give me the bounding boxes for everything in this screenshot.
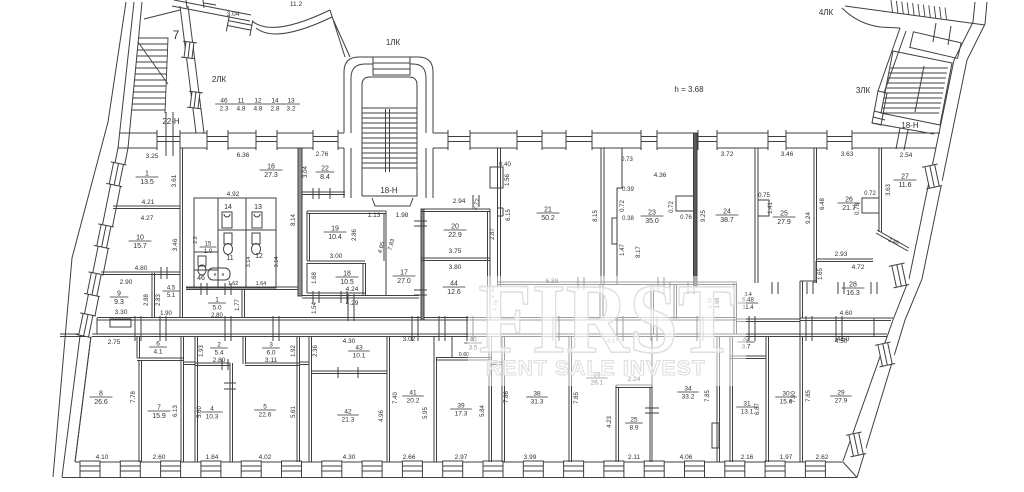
svg-text:1: 1 xyxy=(145,171,149,178)
bottom right corner joint xyxy=(843,462,857,478)
wall x735 lower xyxy=(734,283,800,334)
svg-text:9.24: 9.24 xyxy=(806,212,812,224)
svg-text:3.14: 3.14 xyxy=(274,257,280,268)
svg-text:7.85: 7.85 xyxy=(705,390,711,402)
svg-text:12: 12 xyxy=(255,253,263,260)
stairwell top edge xyxy=(144,10,180,19)
svg-text:1.84: 1.84 xyxy=(206,454,219,461)
room 44 label xyxy=(443,281,466,297)
svg-text:11.6: 11.6 xyxy=(898,182,911,189)
svg-text:2.62: 2.62 xyxy=(816,454,829,461)
svg-text:н: н xyxy=(222,272,225,278)
svg-text:2.8: 2.8 xyxy=(270,106,279,113)
svg-text:21: 21 xyxy=(544,207,552,214)
svg-text:44: 44 xyxy=(450,281,458,288)
svg-text:2.93: 2.93 xyxy=(835,251,848,258)
svg-text:43: 43 xyxy=(355,345,363,352)
room 28 left wall upper xyxy=(815,261,817,283)
svg-text:18: 18 xyxy=(343,271,351,278)
svg-text:27.9: 27.9 xyxy=(835,398,848,405)
svg-text:4.80: 4.80 xyxy=(135,265,148,272)
svg-text:13: 13 xyxy=(287,98,295,105)
gap connector block1-2 xyxy=(183,362,195,365)
room 2 label xyxy=(210,342,228,357)
svg-text:7.85: 7.85 xyxy=(574,392,580,404)
svg-text:20: 20 xyxy=(451,224,459,231)
room 9 walls xyxy=(152,273,155,318)
room 39 label xyxy=(450,403,472,418)
vestibule room numbers row xyxy=(215,98,233,113)
tower top window xyxy=(373,57,410,75)
svg-text:6.13: 6.13 xyxy=(173,405,179,417)
room 25b box xyxy=(616,385,652,462)
svg-text:18-Н: 18-Н xyxy=(380,186,398,195)
svg-text:14: 14 xyxy=(271,98,279,105)
svg-text:22-Н: 22-Н xyxy=(162,117,180,126)
svg-text:4.96: 4.96 xyxy=(379,410,385,422)
svg-text:4.92: 4.92 xyxy=(227,191,240,198)
tower bottom tab xyxy=(372,198,413,206)
room 34 label xyxy=(677,386,699,401)
svg-text:3.99: 3.99 xyxy=(524,454,537,461)
svg-text:4.27: 4.27 xyxy=(141,215,154,222)
svg-text:1.47: 1.47 xyxy=(620,244,626,256)
entry room 1 right wall xyxy=(242,289,245,318)
3LK left wall xyxy=(872,91,887,125)
svg-text:0.73: 0.73 xyxy=(621,157,633,163)
svg-text:3.00: 3.00 xyxy=(330,253,343,260)
svg-text:13: 13 xyxy=(254,204,262,211)
svg-text:2.66: 2.66 xyxy=(403,454,416,461)
svg-text:4.02: 4.02 xyxy=(259,454,272,461)
small room 4.5/5.1 xyxy=(163,286,180,300)
svg-text:2.60: 2.60 xyxy=(153,454,166,461)
room 26 label xyxy=(838,197,861,213)
svg-text:2.97: 2.97 xyxy=(455,454,468,461)
svg-text:27.9: 27.9 xyxy=(777,219,791,226)
svg-text:9.25: 9.25 xyxy=(701,210,707,222)
svg-text:1.77: 1.77 xyxy=(235,299,241,311)
svg-text:22.6: 22.6 xyxy=(259,412,272,419)
svg-text:11: 11 xyxy=(238,98,245,105)
block4 left wall xyxy=(502,336,505,462)
wc 46 toilet xyxy=(198,256,206,266)
3LK upper landing xyxy=(910,32,961,59)
top wall band lower line xyxy=(118,147,936,149)
curved bay outer arc xyxy=(252,10,330,27)
svg-text:0.72: 0.72 xyxy=(864,191,876,197)
room 32 box xyxy=(730,356,766,359)
svg-text:38: 38 xyxy=(533,391,541,398)
rooms 42/41 divider xyxy=(387,336,390,462)
svg-text:2.94: 2.94 xyxy=(453,198,466,205)
room 43 door ticks xyxy=(338,367,358,378)
svg-text:0.72: 0.72 xyxy=(620,200,626,212)
svg-text:21.3: 21.3 xyxy=(342,417,355,424)
svg-text:27: 27 xyxy=(901,174,909,181)
svg-text:3.46: 3.46 xyxy=(781,151,794,158)
svg-text:19: 19 xyxy=(331,226,339,233)
door tick rooms4 xyxy=(222,359,228,370)
wall x880 xyxy=(879,148,882,232)
thick wall x695 xyxy=(694,133,698,287)
svg-text:2.36: 2.36 xyxy=(313,345,319,357)
block2 right wall xyxy=(297,336,300,462)
svg-text:27.3: 27.3 xyxy=(264,172,278,179)
corridor right verticals xyxy=(800,318,874,336)
corridor top mid-left xyxy=(302,296,419,299)
svg-text:3.72: 3.72 xyxy=(721,151,734,158)
tower stair treads xyxy=(362,108,417,172)
svg-text:5.95: 5.95 xyxy=(423,407,429,419)
svg-text:7: 7 xyxy=(157,405,161,412)
svg-text:2.54: 2.54 xyxy=(900,152,913,159)
stairwell 2LK right wall xyxy=(180,6,204,133)
svg-text:1.68: 1.68 xyxy=(312,272,318,284)
svg-text:4.30: 4.30 xyxy=(343,338,356,345)
svg-text:34: 34 xyxy=(684,386,692,393)
svg-text:25: 25 xyxy=(630,417,638,424)
rooms31/30 divider xyxy=(766,336,769,462)
svg-text:5.1: 5.1 xyxy=(167,293,176,299)
svg-text:0.72: 0.72 xyxy=(669,201,675,213)
svg-text:24: 24 xyxy=(723,209,731,216)
svg-text:3.04: 3.04 xyxy=(303,166,309,178)
wc inner walls xyxy=(194,198,276,288)
svg-text:4.36: 4.36 xyxy=(654,172,667,179)
shaft on block4 wall xyxy=(712,423,719,448)
svg-text:23: 23 xyxy=(648,210,656,217)
room 30 label xyxy=(775,391,797,406)
room 18 walls xyxy=(307,263,366,296)
svg-text:12.6: 12.6 xyxy=(447,289,461,296)
room 42 label xyxy=(337,409,359,424)
wc 11 toilet xyxy=(224,233,232,244)
svg-text:1ЛК: 1ЛК xyxy=(386,38,401,47)
room 5 label xyxy=(254,404,276,419)
svg-text:5: 5 xyxy=(263,404,267,411)
svg-text:39: 39 xyxy=(457,403,465,410)
windows on top wall xyxy=(157,130,852,150)
block5 top wall extension xyxy=(843,334,887,337)
svg-text:8.15: 8.15 xyxy=(593,210,599,222)
door tick mid rooms5 xyxy=(224,383,236,389)
svg-text:21.7: 21.7 xyxy=(842,205,856,212)
door ticks along corridor xyxy=(135,294,842,341)
svg-text:4.72: 4.72 xyxy=(852,264,865,271)
svg-text:4.21: 4.21 xyxy=(142,199,155,206)
svg-text:46: 46 xyxy=(220,98,228,105)
svg-text:41: 41 xyxy=(409,390,417,397)
svg-text:1: 1 xyxy=(215,297,219,304)
thick wall x298 xyxy=(298,148,302,296)
left wall notch room21 xyxy=(497,208,503,216)
room 24 label xyxy=(716,209,739,225)
room 36 label xyxy=(586,372,608,387)
svg-text:1.13: 1.13 xyxy=(368,212,381,219)
svg-text:2.11: 2.11 xyxy=(628,454,641,461)
svg-text:4.30: 4.30 xyxy=(343,454,356,461)
svg-text:0.60: 0.60 xyxy=(459,352,470,358)
room 25 label xyxy=(773,211,796,227)
outer wall left band, outer line xyxy=(62,2,134,477)
room 21 label xyxy=(537,207,560,223)
svg-text:3: 3 xyxy=(269,342,273,349)
block1 right wall xyxy=(181,336,184,462)
rooms30/29 divider xyxy=(800,336,803,462)
room 6 label xyxy=(149,341,167,356)
svg-text:4.24: 4.24 xyxy=(346,286,359,293)
block3 right wall xyxy=(489,336,492,462)
room 38 label xyxy=(526,391,548,406)
svg-text:50.2: 50.2 xyxy=(541,215,555,222)
svg-text:0.39: 0.39 xyxy=(622,187,634,193)
door ticks from 3LK landing xyxy=(896,128,908,150)
outer wall right band inner line xyxy=(843,2,975,461)
room 28 left wall lower xyxy=(800,281,816,318)
svg-text:3.75: 3.75 xyxy=(449,248,462,255)
svg-text:31.3: 31.3 xyxy=(531,399,544,406)
wall from 4LK curve down to 3LK xyxy=(878,28,906,93)
door tick on room25 box xyxy=(645,408,659,413)
svg-text:3.63: 3.63 xyxy=(886,184,892,196)
svg-text:3.11: 3.11 xyxy=(265,357,278,364)
door ticks room22 xyxy=(313,188,330,199)
svg-text:46: 46 xyxy=(197,275,205,282)
svg-text:9.3: 9.3 xyxy=(114,299,124,306)
wall 21/23 main xyxy=(601,148,604,285)
corridor top centre xyxy=(497,282,737,285)
room 1 label xyxy=(136,171,159,187)
room9 bottom wall / corridor mid line xyxy=(97,318,737,321)
svg-text:3.80: 3.80 xyxy=(449,264,462,271)
corridor bottom wall xyxy=(60,334,843,337)
svg-text:0.78: 0.78 xyxy=(855,203,861,215)
svg-text:3.46: 3.46 xyxy=(172,238,179,251)
room 9 label xyxy=(110,291,129,307)
wall x814 (rooms 25/26) xyxy=(814,148,817,283)
shaft box on wall x756 xyxy=(758,200,769,216)
wc room 13 sink xyxy=(252,212,262,228)
room 1(entry) label xyxy=(208,297,226,312)
svg-text:20.2: 20.2 xyxy=(407,398,420,405)
svg-text:4.50: 4.50 xyxy=(837,336,850,343)
labels 6.48/11.4 xyxy=(738,298,758,312)
svg-text:4.1: 4.1 xyxy=(153,349,162,356)
corridor centre dividing wall xyxy=(651,287,654,334)
svg-text:0.76: 0.76 xyxy=(680,215,692,221)
svg-text:28: 28 xyxy=(849,282,857,289)
svg-text:6.0: 6.0 xyxy=(266,350,275,357)
top-right slanted edge with comb xyxy=(845,6,985,25)
svg-text:15.7: 15.7 xyxy=(133,243,147,250)
comb ticks 4LK xyxy=(891,0,947,19)
svg-text:5.61: 5.61 xyxy=(291,406,297,418)
door ticks on wall x421 xyxy=(414,221,427,295)
wc outer box xyxy=(194,198,276,288)
rooms38/36 divider xyxy=(569,336,572,462)
room 32 label xyxy=(737,336,755,351)
room 3 label xyxy=(262,342,280,357)
svg-text:30: 30 xyxy=(782,391,790,398)
room 7 label xyxy=(148,405,171,421)
svg-text:1.54: 1.54 xyxy=(312,302,318,314)
svg-text:5.60: 5.60 xyxy=(197,406,203,418)
room 4 label xyxy=(201,406,223,421)
tower 1LK outer wall inner face xyxy=(351,64,426,198)
room 43 bottom wall xyxy=(311,371,387,374)
svg-text:10.1: 10.1 xyxy=(353,353,366,360)
room 22 label xyxy=(316,166,335,182)
svg-text:6.36: 6.36 xyxy=(237,152,250,159)
corridor mid line left xyxy=(96,318,98,334)
window on 2LK top wall xyxy=(226,16,253,36)
svg-text:1.41: 1.41 xyxy=(768,202,774,214)
room 18 label xyxy=(336,271,359,287)
svg-text:26: 26 xyxy=(845,197,853,204)
svg-text:13.5: 13.5 xyxy=(140,179,154,186)
wc oval tub xyxy=(208,268,230,280)
3LK small window xyxy=(873,111,886,120)
gap connector block3-4 xyxy=(491,362,502,365)
svg-text:6.15: 6.15 xyxy=(506,209,512,221)
svg-text:4.8: 4.8 xyxy=(253,106,262,113)
wc room 14 sink xyxy=(222,212,232,228)
svg-text:8.14: 8.14 xyxy=(291,214,297,226)
svg-text:27.0: 27.0 xyxy=(397,278,411,285)
door ticks corridor top centre xyxy=(578,277,664,290)
svg-text:11.2: 11.2 xyxy=(290,1,303,8)
svg-text:2.83: 2.83 xyxy=(156,294,162,306)
room 6 walls xyxy=(137,336,183,361)
svg-text:10.4: 10.4 xyxy=(328,234,342,241)
svg-text:1.97: 1.97 xyxy=(780,454,793,461)
svg-text:2.76: 2.76 xyxy=(316,151,329,158)
top wall band upper line xyxy=(120,132,940,134)
svg-text:6: 6 xyxy=(156,341,160,348)
svg-text:1.62: 1.62 xyxy=(228,281,239,287)
svg-text:14: 14 xyxy=(224,204,232,211)
room 26 bottom wall xyxy=(816,259,873,262)
room 41 label xyxy=(402,390,424,405)
stepped thin wall right of 21/23 xyxy=(617,148,622,285)
svg-text:35.0: 35.0 xyxy=(645,218,659,225)
lot boundary line (left) xyxy=(53,2,126,477)
svg-text:22.9: 22.9 xyxy=(448,232,462,239)
svg-text:7.90: 7.90 xyxy=(791,391,797,403)
wc 12 toilet xyxy=(252,233,260,244)
svg-text:8: 8 xyxy=(99,391,103,398)
svg-text:3ЛК: 3ЛК xyxy=(856,86,871,95)
room 40 box xyxy=(434,336,491,360)
svg-text:2.87: 2.87 xyxy=(490,228,496,240)
svg-text:1.98: 1.98 xyxy=(396,212,409,219)
svg-text:7: 7 xyxy=(173,28,180,42)
svg-text:1.64: 1.64 xyxy=(256,281,267,287)
svg-text:5.4: 5.4 xyxy=(214,350,223,357)
svg-text:3.61: 3.61 xyxy=(171,174,178,187)
room 3 bottom xyxy=(245,363,299,366)
svg-text:16.3: 16.3 xyxy=(846,290,860,297)
entry bay below room9 xyxy=(110,319,131,327)
windows on 2LK right wall xyxy=(181,41,197,59)
outer wall right band outer line xyxy=(857,2,987,478)
svg-text:8.9: 8.9 xyxy=(629,425,638,432)
room 23 label xyxy=(641,210,664,226)
room 17 label xyxy=(393,270,416,286)
block4 right wall xyxy=(717,336,720,462)
svg-text:17.3: 17.3 xyxy=(455,411,468,418)
3LK landing bottom line xyxy=(872,123,934,134)
wall from bay to tower xyxy=(330,10,350,57)
gap connector block2-3 xyxy=(299,362,309,365)
outer wall left band, inner line xyxy=(75,2,142,462)
svg-text:4ЛК: 4ЛК xyxy=(819,8,834,17)
windows on right facade band xyxy=(846,164,943,457)
room 16 label xyxy=(260,164,283,180)
svg-text:9: 9 xyxy=(117,291,121,298)
room 27 bottom slant xyxy=(876,230,909,251)
rooms 2/3 divider xyxy=(243,336,246,364)
wall x497 (room21 left) xyxy=(498,148,501,287)
watermark wash xyxy=(468,276,746,386)
room 28 label xyxy=(842,282,865,298)
svg-text:0.75: 0.75 xyxy=(758,193,770,199)
room 19 box xyxy=(307,211,386,261)
svg-text:15.9: 15.9 xyxy=(152,413,166,420)
stair 2LK right stringer xyxy=(165,38,168,113)
svg-text:31: 31 xyxy=(743,401,751,408)
room 31 label xyxy=(736,401,758,416)
svg-text:10.5: 10.5 xyxy=(340,279,354,286)
room 20/44 divider xyxy=(421,258,490,261)
svg-text:3.25: 3.25 xyxy=(146,153,159,160)
svg-text:7.86: 7.86 xyxy=(504,391,510,403)
rooms 4/5 divider xyxy=(230,363,233,462)
svg-text:2.86: 2.86 xyxy=(352,229,358,241)
svg-text:26.6: 26.6 xyxy=(94,399,108,406)
tower stair core box xyxy=(362,77,417,196)
room 40 label xyxy=(464,337,482,352)
room 8 label xyxy=(90,391,113,407)
wall right of rooms 1/10/9 xyxy=(180,148,183,318)
room 27 label xyxy=(894,174,917,190)
room 20 label xyxy=(444,224,467,240)
svg-text:10.3: 10.3 xyxy=(206,414,219,421)
shaft box room23 xyxy=(676,196,694,211)
svg-text:22: 22 xyxy=(321,166,329,173)
stair 2LK diagonal xyxy=(138,42,168,84)
svg-text:4.8: 4.8 xyxy=(236,106,245,113)
svg-text:2.88: 2.88 xyxy=(144,294,150,306)
wall x421 (grey, rooms 20/44 left) xyxy=(421,209,424,320)
svg-text:5.0: 5.0 xyxy=(212,305,221,312)
svg-text:13.1: 13.1 xyxy=(741,409,754,416)
bottom facade inner line xyxy=(75,461,843,463)
wc block bottom wall xyxy=(186,287,302,290)
svg-text:2.90: 2.90 xyxy=(120,279,133,286)
svg-text:16: 16 xyxy=(267,164,275,171)
svg-text:4: 4 xyxy=(210,406,214,413)
svg-text:3.02: 3.02 xyxy=(403,336,416,343)
room 18/19 divider xyxy=(307,261,365,264)
room 29 label xyxy=(830,390,852,405)
room 10 label xyxy=(129,235,152,251)
curved bay inner arc xyxy=(256,17,332,34)
svg-text:1.65: 1.65 xyxy=(818,268,824,280)
label 15 frac xyxy=(200,242,217,256)
bottom facade window bays xyxy=(80,461,825,478)
